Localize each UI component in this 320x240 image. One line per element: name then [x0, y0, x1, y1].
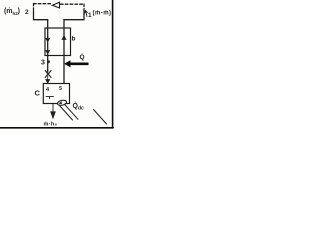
- table cell border bottom: [0, 127, 113, 129]
- junction dot node 3: [47, 60, 50, 63]
- flow arrow down on left pipe (upper): [46, 36, 50, 42]
- expansion valve X on left pipe: [45, 71, 51, 78]
- dashed boundary top horizontal right segment: [61, 3, 85, 5]
- svg-text:(ṁ-ṁ): (ṁ-ṁ): [93, 11, 112, 17]
- liquid level mark: [46, 97, 54, 99]
- svg-text:3: 3: [41, 60, 45, 67]
- svg-text:(ṁh2): (ṁh2): [4, 8, 20, 16]
- node 1 arrow: [85, 11, 88, 17]
- dashed boundary right vertical: [83, 4, 85, 11]
- svg-text:5: 5: [59, 86, 62, 92]
- svg-text:C: C: [35, 89, 41, 98]
- small arrowhead in ellipse: [59, 101, 63, 104]
- svg-text:b: b: [72, 36, 76, 43]
- node label (mh2) top-left: [4, 8, 20, 16]
- stray pen stroke bottom right: [94, 110, 107, 125]
- heat input thick arrow Q: [64, 60, 89, 67]
- label Q_dc: [73, 102, 85, 111]
- table cell border right: [112, 0, 114, 128]
- wire: right pipe down through generator: [63, 20, 65, 84]
- wire: right yoke from dashed end to right pipe: [64, 11, 84, 20]
- heat arrow shaft line 1: [60, 106, 73, 121]
- generator box: [45, 28, 71, 56]
- valve triangle symbol on dashed line: [52, 2, 59, 8]
- flow arrow up on right pipe: [62, 36, 66, 46]
- heat arrow shaft line 2: [65, 104, 79, 119]
- svg-text:2: 2: [25, 9, 29, 16]
- dashed boundary left vertical: [33, 4, 35, 12]
- valve outlet arrow into condenser: [46, 76, 50, 83]
- heat out ellipse at condenser corner: [57, 99, 67, 106]
- dashed boundary top horizontal left segment: [34, 3, 52, 5]
- outlet pipe with arrow from condenser bottom: [51, 104, 55, 119]
- flow arrow down on left pipe (lower): [46, 51, 50, 54]
- svg-text:ṁ·h₆: ṁ·h₆: [44, 122, 58, 128]
- condenser box C: [43, 84, 69, 104]
- svg-text:Q̇: Q̇: [80, 53, 85, 61]
- wire: left yoke from dashed end to left pipe: [34, 11, 48, 20]
- wire: left pipe down through generator: [47, 20, 49, 72]
- svg-text:1: 1: [88, 12, 92, 19]
